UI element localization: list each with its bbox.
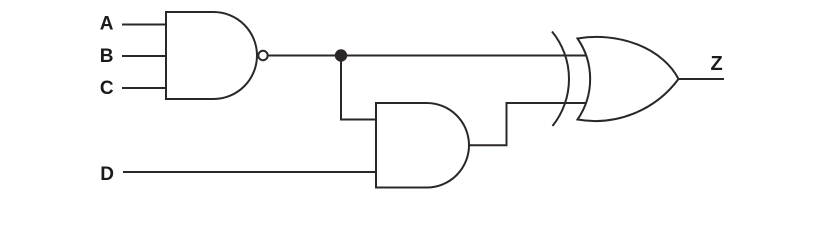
svg-text:C: C bbox=[100, 78, 114, 99]
svg-text:A: A bbox=[100, 14, 114, 35]
svg-text:B: B bbox=[100, 46, 114, 67]
svg-text:Z: Z bbox=[711, 53, 723, 75]
svg-text:D: D bbox=[100, 164, 114, 185]
